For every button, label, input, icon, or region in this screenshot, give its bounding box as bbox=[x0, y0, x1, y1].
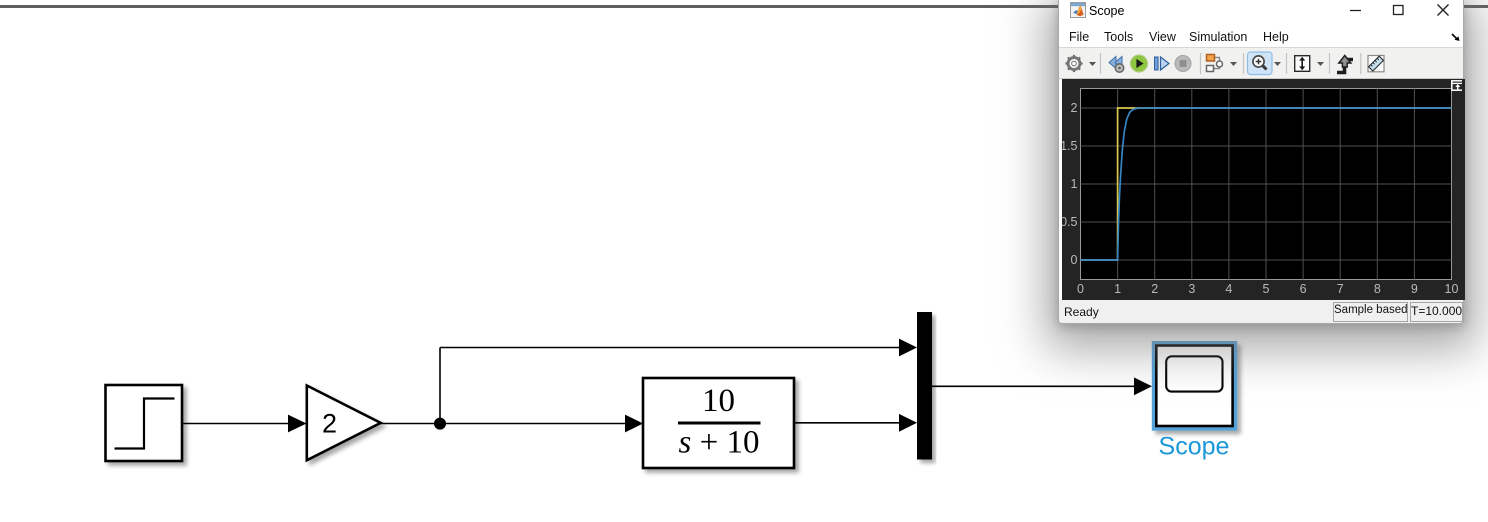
separator bbox=[1329, 53, 1331, 74]
fraction bar bbox=[678, 422, 761, 425]
horizontal gridlines bbox=[1081, 108, 1452, 260]
y axis tick labels bbox=[1060, 101, 1077, 267]
vertical gridlines bbox=[1118, 89, 1415, 280]
arrowhead into Mux input 1 bbox=[899, 339, 917, 357]
arrowhead into Mux input 2 bbox=[899, 414, 917, 432]
svg-text:6: 6 bbox=[1300, 282, 1307, 296]
wire: Mux output to Scope input bbox=[932, 385, 1136, 387]
wire: branch vertical segment bbox=[439, 348, 441, 424]
svg-text:s + 10: s + 10 bbox=[679, 425, 760, 461]
wire: branch horizontal segment to Mux input 1 bbox=[440, 347, 901, 349]
gear (settings) icon bbox=[1065, 55, 1082, 72]
step block (Step source) bbox=[106, 385, 183, 461]
svg-text:10: 10 bbox=[1445, 282, 1459, 296]
scale axes icon bbox=[1295, 56, 1310, 72]
close button bbox=[1432, 0, 1454, 22]
measurements (ruler) icon bbox=[1368, 56, 1384, 72]
scale dropdown caret bbox=[1317, 62, 1324, 66]
title bar bbox=[1059, 0, 1463, 22]
svg-text:1: 1 bbox=[1114, 282, 1121, 296]
separator bbox=[1243, 53, 1245, 74]
separator bbox=[1100, 53, 1102, 74]
canvas top border line bbox=[0, 5, 1488, 8]
axes background bbox=[1081, 89, 1452, 280]
wire: Gain output to Transfer Fcn input bbox=[381, 423, 627, 425]
svg-text:7: 7 bbox=[1337, 282, 1344, 296]
svg-text:2: 2 bbox=[322, 409, 337, 439]
step block icon bbox=[115, 399, 175, 449]
gear dropdown caret bbox=[1089, 62, 1096, 66]
separator bbox=[1200, 53, 1202, 74]
run (green play) icon bbox=[1131, 55, 1147, 71]
svg-text:9: 9 bbox=[1411, 282, 1418, 296]
scope block (selected, blue frame) bbox=[1152, 341, 1237, 431]
separator bbox=[1360, 53, 1362, 74]
transfer function block 10/(s+10) bbox=[643, 378, 794, 468]
gain block (triangle, gain = 2) bbox=[307, 386, 381, 461]
dock (restore) icon top-right bbox=[1452, 81, 1464, 90]
arrowhead into Scope bbox=[1134, 377, 1152, 395]
svg-text:0.5: 0.5 bbox=[1062, 215, 1078, 229]
stop icon (disabled) bbox=[1175, 56, 1191, 72]
zoom button (active, highlighted) bbox=[1248, 52, 1273, 75]
status bar bbox=[1059, 300, 1463, 323]
svg-text:8: 8 bbox=[1374, 282, 1381, 296]
menu bar bbox=[1059, 22, 1463, 48]
svg-text:2: 2 bbox=[1151, 282, 1158, 296]
menu overflow arrow bbox=[1451, 32, 1461, 42]
blocks dropdown caret bbox=[1230, 62, 1237, 66]
Scope window bbox=[1058, 0, 1464, 324]
sample based cell bbox=[1333, 302, 1408, 322]
step-back icon (blue arrows + gear) bbox=[1109, 57, 1124, 73]
plot panel bbox=[1062, 79, 1465, 300]
svg-text:1.5: 1.5 bbox=[1062, 139, 1078, 153]
separator bbox=[1286, 53, 1288, 74]
maximize button bbox=[1388, 0, 1410, 22]
x axis tick labels bbox=[1077, 282, 1458, 296]
svg-text:0: 0 bbox=[1077, 282, 1084, 296]
svg-text:4: 4 bbox=[1225, 282, 1232, 296]
toolbar bbox=[1059, 48, 1463, 79]
junction node (branch point) bbox=[434, 418, 446, 430]
wire: Step output to Gain input bbox=[182, 423, 290, 425]
arrowhead into Gain bbox=[288, 415, 307, 433]
trigger (stairs) icon bbox=[1337, 56, 1353, 73]
minimize button bbox=[1345, 0, 1367, 22]
blue trace (transfer fcn response) bbox=[1081, 108, 1452, 260]
svg-text:2: 2 bbox=[1071, 101, 1078, 115]
svg-text:5: 5 bbox=[1263, 282, 1270, 296]
time cell bbox=[1410, 302, 1463, 322]
simulink blocks icon bbox=[1207, 55, 1223, 72]
wire: Transfer Fcn output to Mux input 2 bbox=[794, 422, 901, 424]
zoom dropdown caret bbox=[1274, 62, 1281, 66]
mux block (vertical black bar) bbox=[917, 312, 932, 460]
window title Scope bbox=[1089, 4, 1124, 18]
arrowhead into Transfer Fcn bbox=[625, 415, 643, 433]
step forward icon bbox=[1155, 57, 1170, 70]
svg-text:3: 3 bbox=[1188, 282, 1195, 296]
svg-text:0: 0 bbox=[1071, 253, 1078, 267]
svg-text:10: 10 bbox=[702, 383, 735, 419]
svg-text:1: 1 bbox=[1071, 177, 1078, 191]
yellow trace (gain output step) bbox=[1081, 108, 1452, 260]
matlab app icon bbox=[1070, 2, 1086, 18]
svg-text:Scope: Scope bbox=[1159, 433, 1230, 461]
